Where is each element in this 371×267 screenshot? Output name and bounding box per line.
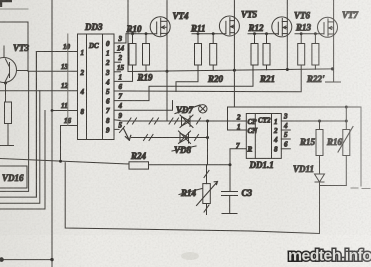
diode VD11 <box>315 174 325 186</box>
photo corner mark top-left <box>0 0 12 7</box>
capacitor C3 <box>222 165 238 214</box>
wire out0 pin3 to gate1 <box>114 34 126 43</box>
transistor VT7 <box>318 17 338 37</box>
wire VT5 drain-source vertical <box>233 0 235 70</box>
IC DD3 body <box>78 34 115 140</box>
DD3 input wire pin13 <box>28 70 78 72</box>
annotation circled mark <box>199 105 207 113</box>
DD3 input wire pin11 <box>52 110 78 112</box>
strike line over R14 label <box>179 189 202 195</box>
node dot pin11 junction <box>51 109 54 112</box>
diode VD7 crossed out <box>180 115 193 128</box>
photo smudge <box>181 252 199 260</box>
vertical wire beside DD3 <box>67 34 69 126</box>
DD3 output labels 0-9 <box>105 40 110 134</box>
node dot pin16 wire junction <box>59 160 62 163</box>
node dot VT5 source on bus <box>233 69 236 72</box>
hatch cuts on VD7 wire <box>127 118 201 124</box>
nested corner wire c <box>0 91 40 204</box>
wire out7 pin4 zigzag join <box>114 101 173 111</box>
wire VD7 line (out8 to CP) <box>120 120 246 122</box>
node dot bottom junction <box>50 258 53 261</box>
hatch cuts on VD8 wire <box>144 135 199 141</box>
wire vertical down to pin13 line <box>27 22 29 71</box>
wire VT6 drain-source vertical <box>286 0 288 70</box>
wire faint top-left stub <box>0 8 28 10</box>
wire VD11 R16 bottom <box>320 185 347 187</box>
DD3 input wire pin12 from left edge <box>0 90 78 92</box>
wire out9 pin5 stub <box>114 128 119 130</box>
terminal bar VT7 source <box>326 81 341 83</box>
node dot R10b top <box>145 32 148 35</box>
diode VD8 crossed out <box>179 131 191 144</box>
node dot R16 top wire junction <box>345 106 348 109</box>
wire spur to R11a bottom <box>176 65 198 92</box>
wire resistor to T-bar <box>7 124 9 146</box>
resistor R14 crossed variable <box>197 182 218 206</box>
node dot VT6 source on bus <box>286 68 289 71</box>
stub pin4 <box>281 129 290 131</box>
nested corner wire a <box>0 71 29 191</box>
resistor R15 <box>316 121 323 174</box>
node dot R16 top on pin3 wire <box>345 120 348 123</box>
resistor R24 <box>129 162 149 169</box>
hatch cut above R14 <box>204 171 209 178</box>
wire right loop vertical <box>360 107 362 186</box>
DD3 input wire pin10 <box>36 51 77 53</box>
node dot VT7 source on bus <box>331 67 334 70</box>
nested corner wire d <box>0 111 45 210</box>
wire VT4 drain-source vertical <box>166 0 168 71</box>
wire stage1 left vertical from top <box>127 0 129 72</box>
wire pin16 down to bottom bus <box>60 126 62 162</box>
resistor R11 <box>195 34 202 65</box>
wire out2 pin2 stub <box>114 61 121 63</box>
node dot R11b top <box>212 32 215 35</box>
box VD16 <box>0 166 27 188</box>
DD3 pin16 wire <box>61 125 78 127</box>
nested corner wire b <box>0 52 36 198</box>
wire R pin to C3 vertical <box>230 149 246 165</box>
stage1 gate wire <box>126 33 157 35</box>
wire big loop: VD11 node down around bottom <box>65 163 319 234</box>
wire pin3 output <box>281 120 346 122</box>
stub pin6 <box>281 148 290 150</box>
resistor R10 <box>129 34 136 65</box>
resistor below VT3 <box>5 102 12 124</box>
IC DD1.1 body <box>246 114 281 159</box>
node dot R11a top <box>197 32 200 35</box>
hatch cut on out9 <box>120 127 125 133</box>
node dot R13b top <box>314 32 317 35</box>
watermark medteh.info <box>288 248 371 265</box>
wire out6 pin7 staircase to R12a bottom <box>114 65 253 101</box>
hatch cut below R14 <box>204 205 209 212</box>
annotation arrow down <box>124 129 131 141</box>
wire source bus <box>128 69 332 72</box>
wire CN top long wire <box>228 106 362 108</box>
node dot R15 top <box>318 120 321 123</box>
transistor VT6 <box>272 17 292 37</box>
wire out5 pin6 long wire to R13a bottom <box>114 65 301 92</box>
wire out3 pin15 stub <box>114 71 121 73</box>
wire top-left horizontal to node <box>0 21 28 23</box>
strike line over VD8 label <box>172 146 196 151</box>
wire VT4 source down to VD7 wire <box>166 71 168 121</box>
wire out8 pin9 to VD7 wire <box>114 119 120 122</box>
node blob left end <box>0 257 4 262</box>
node dot R12b top <box>265 32 268 35</box>
wire out1 pin14 stub <box>114 52 121 54</box>
wire pin10 vertical down-left column <box>35 52 37 198</box>
wire VT7 drain-source vertical <box>333 0 335 82</box>
wire out4 pin1 to R10a bottom <box>114 65 133 81</box>
wire R24 left to edge <box>0 159 129 165</box>
wire R14 bottom lead with cut <box>206 204 208 215</box>
node dot R13a top <box>300 32 303 35</box>
resistor R20 <box>210 34 217 71</box>
resistor R21 <box>263 34 270 70</box>
node dot R10a top <box>131 32 134 35</box>
wire junction vertical down to R24 wire <box>207 121 209 165</box>
wire VT5 source down to CN wire <box>233 70 235 107</box>
T-bar terminal <box>1 145 14 147</box>
resistor R22 <box>312 34 319 69</box>
DD3 output pin numbers <box>117 35 125 129</box>
node dot VT4 source on bus <box>166 70 169 73</box>
wire CN corner down <box>228 107 247 130</box>
stage3 gate wire <box>248 33 278 35</box>
transistor VT4 <box>150 17 170 37</box>
resistor R16 variable <box>338 107 353 186</box>
transistor VT3 <box>0 46 28 83</box>
node dot R12a top <box>253 32 256 35</box>
stage2 gate wire <box>192 33 226 35</box>
node dot C3 top junction <box>229 163 232 166</box>
node dot VT3 emitter <box>4 82 7 85</box>
strike line over VD7 label <box>175 105 200 114</box>
wire VD8 line <box>132 137 208 139</box>
long vertical wire x52 full height <box>51 0 53 267</box>
dashed wire bottom right <box>351 187 370 190</box>
resistor R13 <box>298 34 305 65</box>
stage4 gate wire <box>295 33 324 35</box>
resistor R12 <box>251 34 258 65</box>
node dot VD7 wire junction <box>206 120 209 123</box>
wire R14 top lead with cut <box>206 165 208 184</box>
wire VT3 emitter down <box>5 82 7 102</box>
stub pin5 <box>281 138 290 140</box>
wire R24 right to C3 node <box>149 164 231 166</box>
wire bottom horizontal to long vertical <box>0 259 52 261</box>
transistor VT5 <box>219 16 239 36</box>
resistor R19 <box>143 34 150 72</box>
node dot VD8 wire junction <box>206 136 209 139</box>
